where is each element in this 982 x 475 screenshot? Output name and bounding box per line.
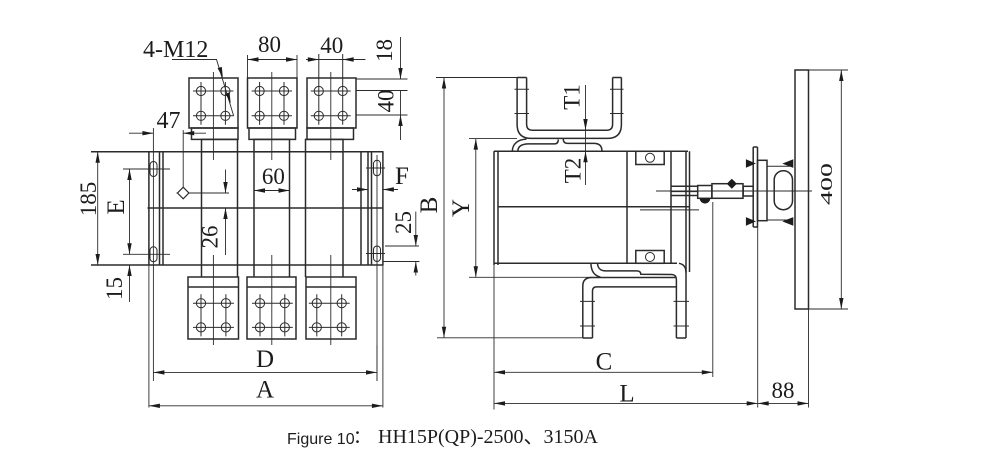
box outline bbox=[494, 151, 688, 265]
left slot cross lines bbox=[123, 169, 170, 254]
bottom pad2 stem bbox=[254, 265, 290, 277]
mounting panel bbox=[795, 70, 809, 309]
svg-text:400: 400 bbox=[817, 163, 836, 205]
bar step bbox=[743, 186, 753, 196]
box extra line bbox=[640, 209, 699, 211]
upper busbar plate bbox=[512, 139, 602, 152]
top pad1 stem bbox=[202, 139, 238, 151]
pivot diamond bbox=[727, 179, 737, 189]
box mid line bbox=[498, 206, 690, 208]
svg-text:E: E bbox=[103, 199, 130, 214]
top pad2 stem bbox=[254, 139, 290, 151]
bottom pad3 stem bbox=[306, 265, 344, 277]
lock tab semicircle bbox=[700, 198, 711, 203]
RIGHT-VIEW bbox=[416, 70, 848, 410]
LEFT-VIEW bbox=[76, 32, 420, 408]
top pad1 step bbox=[192, 128, 239, 139]
clamp triangles bbox=[746, 159, 756, 168]
bottom pad3 holes bbox=[309, 294, 350, 336]
right flange slot upper bbox=[374, 160, 381, 176]
svg-text:T2: T2 bbox=[561, 158, 586, 184]
shaft block bbox=[698, 186, 712, 199]
svg-text:18: 18 bbox=[372, 39, 397, 62]
svg-text:B: B bbox=[416, 197, 443, 214]
right slot cross lines bbox=[366, 168, 385, 254]
bottom pad1 stem bbox=[202, 265, 238, 277]
svg-text:T1: T1 bbox=[560, 84, 585, 110]
diamond mark bbox=[178, 187, 189, 199]
right flange slot lower bbox=[374, 246, 381, 262]
top pad3 bbox=[307, 78, 356, 128]
pole P1 bbox=[202, 152, 238, 265]
shaft bbox=[671, 186, 698, 195]
top pad3 stem bbox=[306, 139, 344, 151]
body bottom edge bbox=[91, 264, 384, 266]
body top edge bbox=[91, 151, 384, 153]
svg-text:Y: Y bbox=[448, 199, 475, 217]
svg-text:25: 25 bbox=[391, 211, 416, 234]
svg-text:26: 26 bbox=[198, 226, 223, 249]
top pad2 bbox=[248, 78, 298, 128]
shaft centerline bbox=[656, 190, 812, 192]
handle grip bbox=[774, 171, 792, 210]
top pad1 bbox=[189, 78, 238, 128]
left flange slot lower bbox=[150, 247, 157, 262]
upper bracket ticks bbox=[515, 89, 624, 113]
top pad2 holes bbox=[252, 82, 292, 125]
svg-text:A: A bbox=[256, 377, 274, 404]
top pad1 holes bbox=[193, 82, 233, 125]
right slot centerline bbox=[376, 155, 378, 381]
left flange slot upper bbox=[150, 162, 157, 177]
handle base block bbox=[758, 160, 768, 220]
right flange plate bbox=[368, 152, 383, 265]
svg-text:60: 60 bbox=[262, 164, 285, 189]
phase1 centerline bbox=[212, 72, 214, 345]
svg-text:HH15P(QP)-2500、3150A: HH15P(QP)-2500、3150A bbox=[378, 426, 599, 448]
operating hole centerline bbox=[177, 130, 230, 199]
svg-text:F: F bbox=[395, 163, 409, 190]
handle mounting plate bbox=[753, 147, 757, 227]
left slot centerline bbox=[152, 128, 154, 381]
top clip bbox=[636, 151, 664, 164]
bottom clip bbox=[636, 251, 664, 264]
svg-text:15: 15 bbox=[102, 277, 127, 300]
svg-text:C: C bbox=[596, 349, 613, 376]
bottom pad1 holes bbox=[193, 294, 234, 336]
lower busbar curves bbox=[591, 263, 686, 338]
left flange plate bbox=[149, 152, 163, 265]
svg-text:88: 88 bbox=[772, 378, 795, 403]
lower bracket hat bbox=[583, 151, 690, 338]
svg-text:47: 47 bbox=[157, 108, 181, 134]
svg-text:80: 80 bbox=[258, 32, 281, 57]
svg-text:40: 40 bbox=[320, 33, 343, 58]
bottom pad2 bbox=[247, 277, 296, 339]
svg-text:40: 40 bbox=[374, 90, 399, 113]
top pad3 holes bbox=[311, 54, 351, 125]
top pad2 step bbox=[249, 128, 296, 139]
bottom pad1 bbox=[188, 277, 239, 339]
lower bracket ticks bbox=[580, 301, 689, 326]
svg-text:D: D bbox=[256, 346, 274, 373]
phase3 centerline bbox=[330, 72, 332, 345]
top pad3 step bbox=[307, 128, 354, 139]
box partition bbox=[626, 151, 628, 263]
right body edge bbox=[360, 152, 362, 265]
pole P3 bbox=[306, 152, 344, 265]
caption Figure 10 bbox=[287, 426, 599, 448]
bottom pad2 holes bbox=[252, 294, 293, 336]
svg-text:Figure 10: Figure 10 bbox=[287, 431, 355, 448]
handle connectors bbox=[767, 166, 790, 220]
operating bar bbox=[712, 184, 743, 199]
pole P2 bbox=[254, 152, 290, 265]
svg-text:：: ： bbox=[353, 427, 371, 447]
bottom pad3 bbox=[306, 277, 356, 339]
body mid line bbox=[148, 207, 384, 209]
upper bracket left leg bbox=[517, 78, 621, 139]
phase2 centerline bbox=[271, 72, 273, 345]
